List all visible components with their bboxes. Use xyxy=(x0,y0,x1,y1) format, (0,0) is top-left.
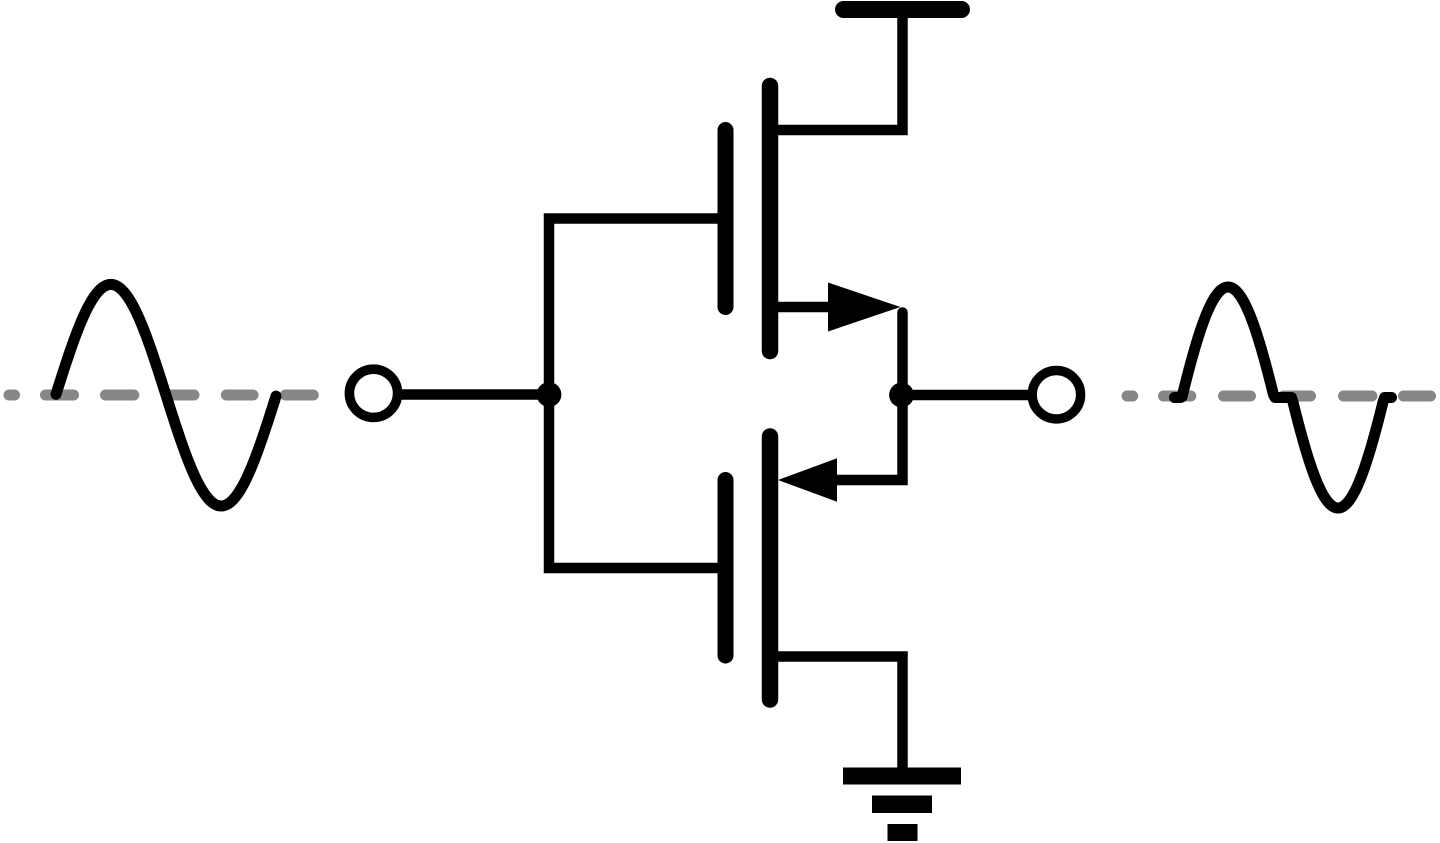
wire VDD to Q1 drain xyxy=(772,14,903,130)
transistor Q2 channel bar xyxy=(762,437,779,700)
wire Q2 source to output node xyxy=(837,395,903,480)
transistor Q1 source arrow xyxy=(828,283,901,332)
wire Q1 source to output node xyxy=(897,313,908,396)
node output junction xyxy=(889,383,914,408)
transistor Q2 source arrow xyxy=(778,458,837,501)
output terminal circle xyxy=(1032,371,1080,419)
ground bar 3 xyxy=(888,824,918,841)
input sine waveform xyxy=(56,284,276,506)
wire Q2 drain to ground xyxy=(772,657,903,776)
node input junction xyxy=(537,382,562,407)
wire input to gate rail xyxy=(399,389,549,400)
transistor Q1 gate bar xyxy=(718,130,734,307)
input terminal circle xyxy=(349,369,397,417)
ground bar 2 xyxy=(872,796,932,814)
output crossover waveform xyxy=(1175,287,1392,508)
transistor Q1 channel bar xyxy=(762,86,779,351)
wire Q1 source stub xyxy=(772,302,832,313)
output axis dashed line xyxy=(1127,391,1431,402)
ground bar 1 xyxy=(843,768,961,785)
wire gate rail with gate stubs xyxy=(549,219,722,569)
input axis dashed line xyxy=(9,390,313,401)
wire output node to terminal xyxy=(902,390,1032,401)
power VDD bar xyxy=(844,1,962,18)
transistor Q2 gate bar xyxy=(718,480,734,656)
